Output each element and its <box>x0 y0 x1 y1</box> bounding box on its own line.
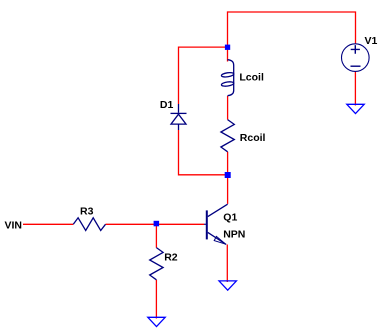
svg-text:R3: R3 <box>80 205 94 217</box>
svg-text:R2: R2 <box>164 252 178 264</box>
svg-text:V1: V1 <box>365 35 378 47</box>
svg-text:Rcoil: Rcoil <box>240 132 266 144</box>
svg-text:Q1: Q1 <box>223 212 237 224</box>
svg-text:VIN: VIN <box>5 220 23 232</box>
svg-text:D1: D1 <box>160 99 174 111</box>
svg-text:NPN: NPN <box>223 229 245 241</box>
svg-text:Lcoil: Lcoil <box>239 71 264 83</box>
